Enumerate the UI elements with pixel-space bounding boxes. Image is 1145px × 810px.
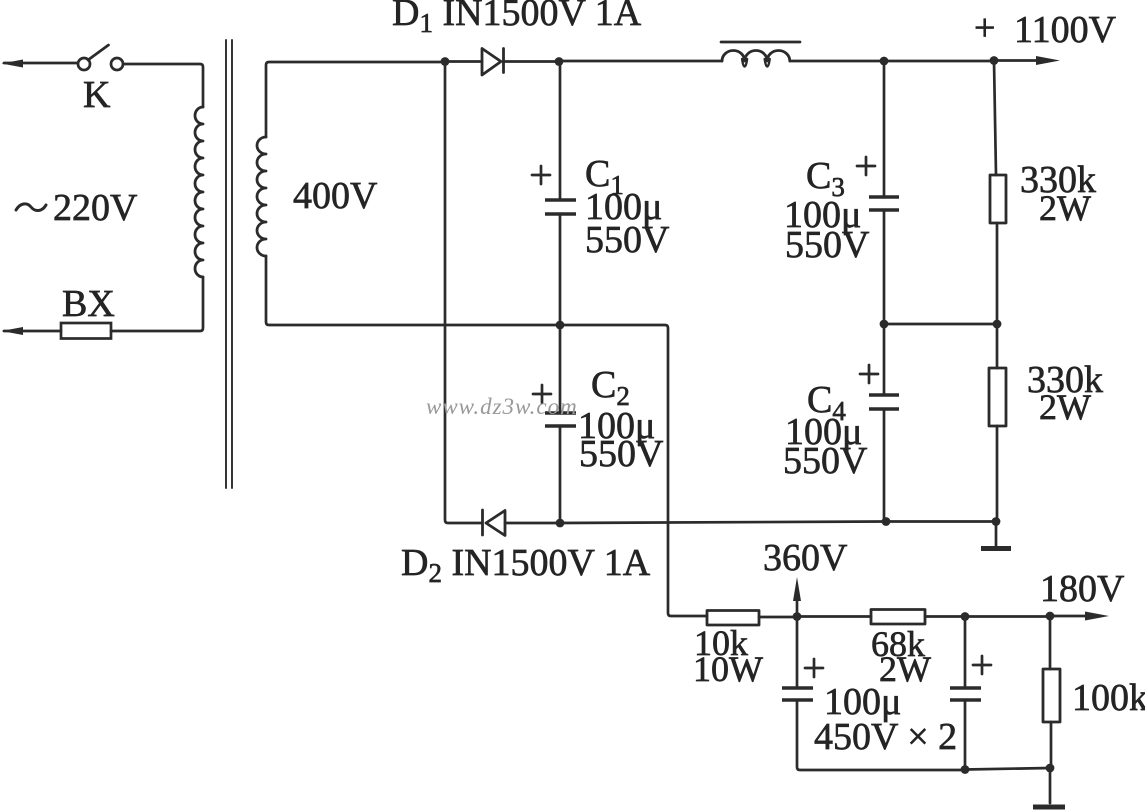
wire top-left lead <box>4 62 77 65</box>
node D1 anode <box>441 57 450 66</box>
node C2 bottom <box>556 519 565 528</box>
svg-text:2W: 2W <box>1039 387 1091 427</box>
wire inductor to C3 node <box>790 60 884 63</box>
wire secondary bottom to down corner <box>560 325 707 616</box>
svg-text:K: K <box>83 74 111 116</box>
wire 360V node to 68k <box>797 615 871 618</box>
node filter cap top <box>961 612 970 621</box>
svg-text:180V: 180V <box>1040 568 1125 610</box>
wire C5 bottom lead <box>797 700 965 770</box>
plus C3 <box>857 157 875 175</box>
wire C3 bottom lead <box>883 210 886 324</box>
capacitor C5 <box>782 688 813 700</box>
svg-text:220V: 220V <box>53 187 138 229</box>
wire D1 anode down to D2 <box>445 62 482 524</box>
svg-text:550V: 550V <box>785 224 870 266</box>
wire diode to C1 node <box>503 60 559 63</box>
inductor L1 <box>722 51 790 61</box>
node C3 top <box>880 57 889 66</box>
wire 180V arrow <box>1050 615 1089 618</box>
ground bottom right <box>1049 768 1052 803</box>
wire C6 bottom lead <box>964 700 967 770</box>
capacitor C4 <box>869 395 899 409</box>
wire bottom rail <box>965 768 1050 770</box>
svg-text:400V: 400V <box>293 175 378 217</box>
svg-text:360V: 360V <box>763 537 848 579</box>
svg-text:550V: 550V <box>585 219 670 261</box>
resistor R2 330k <box>989 368 1006 426</box>
wire C2 node to C4 bottom <box>560 522 886 524</box>
wire C1 top lead <box>559 62 562 201</box>
fuse BX <box>61 323 111 339</box>
wire 100k top lead <box>1049 616 1052 669</box>
svg-text:BX: BX <box>62 283 115 325</box>
plus C4 <box>860 365 878 383</box>
switch K <box>78 58 90 70</box>
wire C4 bottom lead <box>883 409 886 522</box>
svg-text:1100V: 1100V <box>1014 9 1117 51</box>
svg-text:550V: 550V <box>579 433 664 475</box>
svg-text:100k: 100k <box>1072 677 1145 719</box>
arrow left bottom <box>2 327 24 335</box>
capacitor C2 <box>545 413 576 426</box>
svg-text:www.dz3w.com: www.dz3w.com <box>426 394 578 419</box>
transformer core <box>226 40 232 488</box>
resistor R5 100k <box>1043 669 1060 722</box>
node C1 top <box>555 57 564 66</box>
wire C4 top lead <box>883 324 886 395</box>
label ~220V <box>16 204 46 211</box>
wire C3 top lead <box>883 61 886 197</box>
plus C2 <box>533 385 551 403</box>
svg-text:D1 IN1500V 1A: D1 IN1500V 1A <box>392 0 642 38</box>
wire fuse to arrow <box>4 330 61 333</box>
svg-text:550V: 550V <box>783 440 868 482</box>
resistor R1 330k <box>990 175 1006 223</box>
node C1/C2 midpoint <box>556 321 565 330</box>
wire R1 to midpoint <box>996 223 999 324</box>
inductor core bar <box>721 41 800 44</box>
wire node to diode <box>445 60 482 63</box>
arrow up 360V <box>796 598 799 616</box>
wire C1 bottom lead <box>559 214 562 325</box>
wire C3 node to output node <box>884 60 994 63</box>
wire 10k to 360V node <box>759 616 797 619</box>
node C4 bottom <box>882 517 891 526</box>
wire C5 top lead <box>796 617 799 689</box>
plus C1 <box>532 166 550 184</box>
wire C4 bottom to ground node <box>886 520 996 523</box>
wire midpoint link <box>884 323 997 326</box>
plus C5 <box>805 659 823 677</box>
capacitor C1 <box>545 200 576 214</box>
wire C2 top lead <box>559 325 562 413</box>
resistor R4 68k <box>871 610 925 625</box>
wire C1 node to inductor <box>559 60 722 63</box>
wire switch to primary <box>123 64 203 107</box>
wire output arrow <box>994 59 1040 62</box>
svg-text:450V × 2: 450V × 2 <box>814 716 957 758</box>
ground mid <box>995 522 998 547</box>
node ground bottom <box>1046 764 1055 773</box>
svg-text:D2 IN1500V 1A: D2 IN1500V 1A <box>401 542 651 588</box>
svg-text:2W: 2W <box>1039 188 1091 228</box>
diode D2 <box>483 510 506 536</box>
node 360V <box>793 612 802 621</box>
wire 330k top lead <box>994 61 996 176</box>
wire D2 to C2 bottom node <box>505 522 560 525</box>
wire primary bottom <box>111 277 203 331</box>
wire 100k bottom lead <box>1050 722 1053 768</box>
resistor R3 10k <box>707 611 759 626</box>
svg-text:+: + <box>974 7 995 49</box>
wire R2 bottom <box>996 426 999 522</box>
wire C6 top lead <box>964 617 967 689</box>
transformer secondary winding <box>257 137 266 256</box>
arrow left top <box>2 60 24 68</box>
node C3/C4 midpoint <box>880 320 889 329</box>
svg-text:10W: 10W <box>693 649 763 689</box>
wire secondary bottom <box>266 256 560 325</box>
plus C6 <box>973 656 991 674</box>
node 180V <box>1046 612 1055 621</box>
arrow right 180V <box>1085 612 1109 621</box>
wire 68k to cap node <box>925 615 965 618</box>
wire C2 bottom lead <box>559 426 562 523</box>
diode D1 <box>482 49 504 76</box>
svg-text:C2: C2 <box>591 364 630 411</box>
node 330k midpoint <box>993 320 1002 329</box>
wire cap node to 180V node <box>965 615 1050 618</box>
node C6 bottom <box>961 765 970 774</box>
arrow right 1100V <box>1036 56 1060 65</box>
node ground mid <box>992 517 1001 526</box>
transformer primary winding <box>195 107 203 277</box>
capacitor C3 <box>869 197 899 210</box>
node output 1100V <box>990 56 999 65</box>
wire secondary top <box>266 62 445 137</box>
wire midpoint to R2 <box>996 324 999 368</box>
